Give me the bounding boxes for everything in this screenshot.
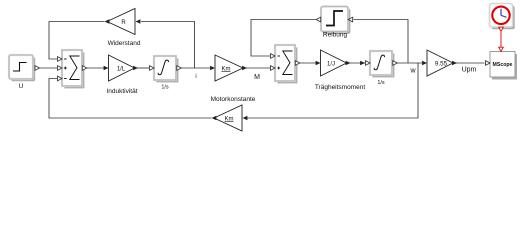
label Traegheitsmoment [315, 84, 366, 91]
wire gain 1/L to integrator1 [135, 67, 150, 69]
label 1/s (integrator2) [377, 80, 385, 86]
node label M [254, 74, 260, 81]
sum S1 sign minus (bottom) [64, 78, 67, 80]
svg-text:Induktivität: Induktivität [106, 88, 137, 95]
wire branch node w down to gain Km feedback input [243, 63, 419, 120]
label Widerstand [108, 40, 141, 47]
svg-text:w: w [409, 68, 416, 75]
wire integrator1 to gain Km with node i [177, 66, 215, 71]
node label i [195, 74, 196, 80]
sum block S2 [271, 45, 300, 83]
svg-text:M: M [254, 74, 260, 81]
svg-text:i: i [195, 74, 196, 80]
wire gain 1/J to integrator2 [347, 62, 366, 64]
svg-text:U: U [19, 83, 24, 90]
wire feedback R output down into sum1 top input [49, 22, 105, 60]
wire gain Km output to sum2 bottom input [246, 67, 270, 69]
step source block U [9, 55, 40, 81]
svg-text:MScope: MScope [493, 62, 513, 68]
sum S2 sign plus (bottom) [277, 67, 280, 70]
svg-text:Km: Km [225, 116, 234, 122]
svg-text:Trägheitsmoment: Trägheitsmoment [315, 84, 366, 91]
label Motorkonstante [211, 96, 256, 103]
svg-text:9.55: 9.55 [435, 60, 448, 67]
svg-text:Widerstand: Widerstand [108, 40, 141, 47]
sign block Reibung [316, 7, 353, 34]
gain 1/J (Traegheitsmoment) [321, 50, 351, 76]
label U [19, 83, 24, 90]
gain R (Widerstand) [105, 9, 136, 35]
svg-text:1/s: 1/s [377, 80, 385, 86]
wire Reibung output to sum2 top input [251, 20, 316, 57]
wire sum1 output to gain 1/L [83, 66, 109, 71]
wire gain 9.55 output to MScope [456, 62, 485, 64]
svg-text:1/s: 1/s [161, 85, 169, 91]
svg-text:Reibung: Reibung [323, 32, 348, 39]
svg-text:Km: Km [222, 66, 231, 72]
chevron into integrator2 (from 1/J wire) [360, 61, 365, 66]
gain Km (Motorkonstante) [215, 55, 247, 81]
svg-text:R: R [121, 20, 126, 26]
wire branch node i up to gain R input [136, 19, 195, 68]
label 1/s (integrator1) [161, 85, 169, 91]
sum S1 sign plus (middle) [64, 67, 67, 70]
label Reibung [323, 32, 348, 39]
svg-text:1/L: 1/L [117, 66, 126, 72]
wire sum2 output to gain 1/J [296, 61, 321, 66]
svg-text:1/J: 1/J [327, 61, 335, 67]
wire U to sum1 [34, 67, 57, 69]
integrator block 1/s (speed) [366, 51, 398, 77]
node label Upm [462, 67, 477, 74]
red wire clock to MScope [499, 27, 504, 51]
gain 9.55 [427, 50, 457, 76]
gain 1/L (Induktivitaet) [109, 55, 139, 81]
node label w [409, 68, 416, 75]
wire branch node w up to Reibung input [354, 20, 409, 64]
clock block [490, 4, 515, 30]
svg-text:Motorkonstante: Motorkonstante [211, 96, 256, 103]
integrator block 1/s (current) [150, 56, 182, 82]
label Induktivitaet [106, 88, 137, 95]
scope block MScope [486, 52, 518, 80]
sum S1 sign minus (top) [64, 58, 67, 60]
wire integrator2 to gain 9.55 with node w [393, 61, 427, 66]
wire EMF feedback bottom into sum1 bottom input [49, 79, 212, 119]
sum block S1 [58, 50, 87, 88]
svg-text:Upm: Upm [462, 67, 477, 74]
sum S2 sign minus (top) [277, 55, 280, 57]
gain Km feedback (EMF) [212, 105, 243, 131]
